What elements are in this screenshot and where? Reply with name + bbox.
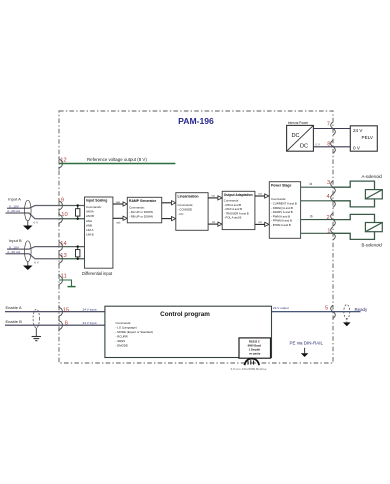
wire Input B return (left of connector) [6,254,60,259]
wire pin 11 to 0V bar [59,280,72,287]
wire DC/DC to pin 8 [313,146,333,148]
wire pin 1 from Power Stage [301,232,333,234]
svg-text:9: 9 [61,198,64,204]
svg-text:6: 6 [65,321,68,327]
resistor input impedance B [76,247,80,259]
svg-text:12: 12 [60,158,66,164]
svg-text:PAM-196: PAM-196 [178,116,214,126]
wire B-solenoid upper loop [333,214,375,222]
svg-text:Power Stage: Power Stage [271,184,291,188]
wire cb Linearisation to Output Adaptation [208,222,222,226]
wire B-solenoid lower loop [333,232,375,240]
svg-text:0 V: 0 V [316,143,321,147]
ground Ready shield (dashed stem) [343,319,351,327]
resistor input impedance A [76,206,80,219]
block Linearisation [176,193,208,231]
wire RAMP Generator to Linearisation (a) [162,201,176,205]
svg-text:24 V input: 24 V input [83,307,97,311]
pin 14 [59,240,62,253]
block Control program [105,306,272,357]
wire ua Output Adaptation to Power Stage [255,194,269,198]
wire Input B signal (left of connector) [7,247,59,250]
wire wb Input Scaling to RAMP Generator [113,216,127,220]
svg-text:8: 8 [327,142,330,148]
svg-text:11: 11 [61,274,67,280]
svg-text:PELV: PELV [362,135,374,140]
svg-text:cb: cb [212,220,216,224]
junction dot B top [77,245,79,247]
svg-text:Ia: Ia [310,182,313,186]
svg-text:24 V output: 24 V output [273,306,289,310]
wire A-solenoid upper loop [333,181,375,190]
wire Input A return (left of connector) [6,213,60,219]
wire Ia Power Stage to pin 3 [301,186,333,188]
wire ub Output Adaptation to Power Stage [255,222,269,226]
svg-text:Internal Power: Internal Power [288,121,309,125]
svg-text:Ib: Ib [310,215,313,219]
wire pin 10 to Input Scaling [59,218,85,220]
svg-text:1: 1 [327,228,330,234]
svg-text:ua: ua [259,192,263,196]
junction dot B bottom [77,258,79,260]
pin 8 [331,140,336,153]
module border PAM-196 enclosure [59,111,333,363]
svg-text:Input B: Input B [9,238,22,243]
block RAMP Generator [127,197,161,223]
pin 2 [331,213,336,226]
block Power Stage [269,182,300,239]
svg-text:Input A: Input A [8,197,21,202]
pin 10 [59,213,62,226]
ground Input B shield [23,262,33,270]
wire pin 4 from Power Stage [301,200,333,202]
ground 0V bar (pin 11) [68,286,76,288]
svg-text:7: 7 [327,122,330,128]
pin 12 [59,157,62,170]
wire pin 14 to Input Scaling [59,246,85,248]
svg-text:Enable B: Enable B [6,319,23,324]
junction dot A top [77,204,79,206]
svg-text:24 V input: 24 V input [83,321,97,325]
wire A-solenoid lower loop [333,199,375,207]
wire wa Input Scaling to RAMP Generator [113,202,127,206]
interface RS232 box [239,338,271,358]
svg-text:ca: ca [212,194,216,198]
svg-text:wb: wb [117,221,121,225]
pin 1 [331,227,336,240]
block Input Scaling [85,197,113,268]
pin 15 [59,305,62,318]
svg-text:Control program: Control program [160,311,210,318]
svg-text:Output Adaptation: Output Adaptation [224,193,253,197]
svg-text:B-solenoid: B-solenoid [362,242,383,247]
svg-text:10: 10 [61,212,67,218]
wire ca Linearisation to Output Adaptation [208,196,222,200]
wire pin 13 to Input Scaling [59,258,85,260]
svg-text:24 V: 24 V [353,128,363,133]
svg-text:PE via DIN-RAIL: PE via DIN-RAIL [290,341,324,346]
pin 5 [331,305,336,318]
svg-text:Linearisation: Linearisation [178,194,199,198]
svg-text:5: 5 [325,306,328,312]
pin 7 [331,122,336,135]
svg-text:Input Scaling: Input Scaling [86,199,107,203]
cable shield ellipse Input A [25,200,32,221]
wire DC/DC to pin 7 [313,128,333,130]
svg-text:DC: DC [291,133,299,139]
svg-text:DC: DC [300,144,308,150]
pin 9 [59,199,62,212]
wire RAMP Generator to Linearisation (b) [162,217,176,221]
svg-text:Enable A: Enable A [6,305,22,310]
wire reference voltage output [59,163,175,165]
svg-text:2: 2 [327,215,330,221]
svg-text:RS232 C 9600 Baud 1 Stopbit no: RS232 C 9600 Baud 1 Stopbit no parity [248,339,262,355]
pin 3 [331,181,336,194]
svg-text:14: 14 [60,241,67,247]
cable shield ellipse Ready (dashed) [344,305,350,319]
wire Enable A to Control program [5,311,105,313]
pin 11 [59,274,62,287]
svg-text:A-solenoid: A-solenoid [362,174,383,179]
power supply 24 V PELV [350,126,377,151]
cable shield ellipse Input B [25,241,32,262]
block Output Adaptation [222,191,255,229]
cable shield ellipse Enable (dashed) [33,309,39,328]
junction dot A bottom [77,218,79,220]
svg-text:Ready: Ready [355,307,368,312]
svg-text:wa: wa [116,200,120,204]
wire pin 8 to 24V supply 0V [333,146,350,148]
ground Input A shield [23,221,33,230]
ground earth symbol (Enable shield) [32,328,41,341]
pin 13 [59,253,62,266]
wire pin 7 to 24V supply [333,128,350,130]
DC/DC converter U-internal [287,125,314,151]
svg-text:3: 3 [327,180,330,186]
svg-text:15: 15 [63,308,69,314]
connector jack socket symbol [245,359,260,366]
wire Input A signal (left of connector) [7,206,59,209]
svg-text:Differential input: Differential input [82,271,113,276]
svg-text:3,5 mm JSC/4580 Buchse: 3,5 mm JSC/4580 Buchse [231,367,267,371]
wire Ib Power Stage to pin 2 [301,219,333,221]
pin 6 [59,319,62,332]
svg-text:ub: ub [259,220,263,224]
solenoid B coil symbol [365,223,382,232]
wire Enable B to Control program [5,324,105,326]
solenoid A coil symbol [365,190,382,199]
wire Control program to pin 5 [272,311,334,313]
svg-text:Reference voltage output (8 V): Reference voltage output (8 V) [87,157,147,162]
wire pin 9 to Input Scaling [59,205,85,207]
ground PE arrow [301,348,309,357]
pin 4 [331,194,336,207]
wire pin 5 to Ready [333,311,361,313]
svg-text:0 V: 0 V [353,146,361,151]
svg-text:RAMP Generator: RAMP Generator [129,199,157,203]
